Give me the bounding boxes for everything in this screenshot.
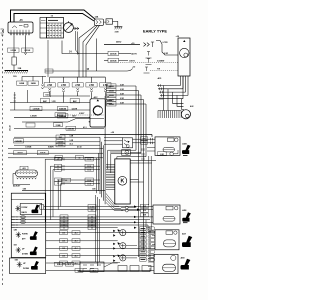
stub terminal [24, 53, 26, 55]
switch out label 2 [141, 141, 148, 145]
switch out wire 2 [133, 142, 156, 144]
lower mid row y141.8 [14, 141, 100, 143]
row label B4C y137.2 [56, 135, 65, 139]
ram3 label 2 [75, 156, 83, 160]
option row dotted [57, 114, 104, 116]
svg-text:41.3: 41.3 [70, 143, 73, 146]
svg-text:24SB: 24SB [31, 82, 37, 85]
sense wire 1 [120, 62, 178, 64]
row label [60, 254, 68, 258]
svg-text:A5B: A5B [182, 142, 187, 145]
wire 15 [45, 39, 97, 72]
row label [88, 205, 96, 209]
wire to inline fuse [13, 35, 15, 57]
svg-text:BACK: BACK [22, 211, 28, 214]
seat icon A59 [181, 259, 191, 270]
row bend aux [146, 220, 150, 227]
bottom connector boxes [80, 262, 104, 272]
row label [60, 231, 68, 235]
supply bus [50, 76, 106, 78]
connector arrow pair [74, 27, 79, 30]
connector A58 [153, 205, 180, 224]
bottom label 2 [66, 262, 74, 266]
wire fuse to ground [13, 65, 15, 70]
bus D to unit B [14, 116, 90, 118]
column arrows 1 [49, 88, 51, 92]
svg-text:1BSUB: 1BSUB [58, 145, 65, 147]
wire label 0.5SB [8, 48, 20, 52]
module bottom contacts [121, 206, 140, 212]
bus B to unit B [10, 102, 90, 104]
cluster 1 out wire [126, 232, 137, 234]
label right of module [158, 152, 167, 156]
stub into A57 y244.5 [152, 244, 155, 246]
relay unit A3C [89, 99, 106, 127]
row label [60, 246, 68, 250]
ram3 label 1 [55, 156, 63, 160]
svg-text:1417R: 1417R [131, 53, 137, 56]
wires to seat motor [164, 86, 185, 111]
svg-text:24SUB: 24SUB [68, 127, 75, 130]
svg-text:A32: A32 [190, 105, 193, 108]
trunk right of module [149, 156, 151, 230]
col5 tail [104, 93, 106, 99]
lower mid row y145.2 [14, 144, 100, 146]
svg-text:11: 11 [63, 228, 65, 230]
label 24SB a [17, 81, 28, 85]
svg-text:B4SUB: B4SUB [59, 108, 66, 111]
svg-text:B4C: B4C [43, 100, 48, 103]
row2 cont [119, 53, 132, 55]
svg-text:0.5SB/W: 0.5SB/W [157, 61, 164, 63]
unit1 sub box [20, 204, 42, 215]
staircase wire 2 [50, 166, 100, 219]
svg-text:FORW: FORW [22, 207, 28, 209]
left branch arrows [41, 85, 43, 90]
module feed row 1 [106, 85, 136, 87]
column drop 4 [91, 77, 93, 83]
stair extra label [62, 178, 71, 182]
staircase label 3 [85, 168, 94, 172]
staircase label 4 [85, 178, 94, 182]
switch out wire 1 [133, 138, 156, 140]
motor harness row 3 [159, 76, 186, 92]
bottom bus [78, 268, 150, 272]
row B to A58 [44, 209, 153, 211]
panel inner wire [11, 199, 44, 201]
left edge connector mark [1, 29, 4, 35]
switch unit 4 cross [17, 262, 22, 268]
staircase label a2 [55, 164, 62, 168]
label 24SB b [28, 81, 39, 85]
bus C label 1 [30, 106, 42, 110]
row label [88, 218, 96, 222]
label ladder right of clusters [140, 227, 155, 261]
terminal r4 [144, 67, 150, 73]
switch ticks 1 [150, 138, 152, 141]
staircase ticks 5 [62, 182, 64, 184]
staircase wire 4 [58, 180, 100, 210]
svg-text:24343: 24343 [109, 99, 114, 102]
ram2 label 1 [14, 151, 27, 155]
staircase ticks 4 [62, 179, 64, 181]
switch unit 3 cross [16, 247, 21, 253]
row label [72, 261, 80, 265]
svg-text:1.0S: 1.0S [90, 206, 93, 208]
staircase label a3 [55, 168, 62, 172]
svg-text:1.5R: 1.5R [52, 101, 57, 103]
bus C label 2 [57, 106, 68, 110]
staircase wire 3 [53, 170, 100, 217]
switch unit 2 cross [16, 232, 21, 238]
svg-text:24SU: 24SU [116, 41, 122, 44]
label 24SUB r3 [108, 58, 119, 62]
row label [72, 239, 80, 243]
row3 wire [104, 60, 108, 62]
stub into A59 y258.5 [148, 258, 154, 260]
small label box 24743 [26, 123, 35, 127]
svg-text:1.0S: 1.0S [62, 241, 65, 243]
branch wire e [77, 32, 79, 55]
svg-text:B/S: B/S [143, 142, 146, 144]
svg-text:41.3: 41.3 [83, 126, 87, 129]
corner wire 3 [117, 157, 146, 159]
note under A58 seat [183, 222, 188, 224]
svg-text:1.0S: 1.0S [62, 248, 65, 250]
feed label 3 [107, 93, 117, 97]
heater switch box [123, 138, 133, 148]
svg-text:03SLB: 03SLB [17, 153, 23, 155]
motor harness row 1 [157, 76, 181, 86]
column label 5 [100, 83, 111, 87]
row above module 2 [8, 152, 122, 153]
label A23 [20, 166, 28, 170]
staircase ticks 3 [62, 168, 64, 170]
row bend into A57 [148, 225, 155, 231]
svg-text:03SLB: 03SLB [40, 153, 46, 155]
label 24SUB mid2 [66, 126, 76, 130]
module right stubs [130, 179, 143, 182]
harness row 7 [46, 240, 118, 242]
corner wire 1 [108, 150, 136, 169]
control unit A5 box [8, 22, 33, 33]
panel oval contacts [21, 216, 26, 224]
micro switch S2 [122, 149, 131, 155]
unit A5 pins [10, 30, 30, 35]
harness border dashed [2, 30, 4, 285]
svg-text:2.5R: 2.5R [61, 85, 66, 87]
staircase label 5 [85, 182, 94, 186]
connector box [106, 19, 113, 24]
svg-text:1.0S: 1.0S [62, 256, 65, 258]
stub into A59 y262 [148, 261, 154, 263]
svg-text:2.5R: 2.5R [75, 85, 80, 87]
row label [88, 215, 96, 219]
row2 wire from fusebox [62, 41, 108, 54]
row above module 1 [8, 147, 103, 149]
col1 tail [49, 93, 51, 96]
svg-text:14A: 14A [95, 16, 99, 19]
feed wire 2 to splice [14, 14, 94, 23]
branch wire d [76, 31, 80, 54]
bus D label [57, 114, 68, 118]
svg-text:0.5R: 0.5R [164, 53, 169, 55]
svg-text:DOWN: DOWN [23, 268, 30, 270]
motor harness row 4 [160, 76, 188, 95]
svg-text:24SUB: 24SUB [110, 53, 117, 56]
row above module 3 [8, 157, 103, 159]
column drop 5 [104, 77, 106, 83]
row label B4SUB y141.8 [56, 140, 65, 144]
seat icon u3 [30, 247, 38, 256]
svg-text:11: 11 [57, 159, 59, 161]
trunk verticals lower [96, 195, 100, 266]
splice box 14A [95, 19, 104, 25]
staircase ticks 2 [62, 165, 64, 167]
contact circle right [170, 152, 174, 156]
seat motor cluster 2 [113, 242, 126, 250]
column drop 2 [63, 77, 65, 83]
drop x27 to bus B [27, 90, 29, 103]
svg-text:B/W: B/W [143, 215, 147, 217]
terminal r3 [146, 59, 152, 65]
switch ticks 2 [150, 142, 152, 145]
cluster 3 out wire [126, 257, 137, 259]
stub into A59 y266.5 [148, 266, 154, 268]
vertical from fusebox to bus [47, 40, 49, 77]
column arrows 4 [90, 88, 92, 92]
row ticks 3 [161, 91, 163, 94]
harness arrows [134, 216, 137, 229]
row label 1BSUB y145.2 [56, 143, 65, 147]
connector arrows r1 [144, 43, 150, 47]
col3 tail [77, 93, 79, 96]
column label 3 [72, 83, 83, 87]
hook wire to A5B [173, 150, 178, 154]
row label [60, 220, 68, 224]
vertical rail with marks [14, 92, 16, 110]
svg-text:K: K [121, 179, 125, 185]
bus 13B [22, 189, 105, 191]
svg-text:2.5R: 2.5R [47, 85, 52, 87]
fuse box grid [47, 18, 64, 39]
wire to ground 31M [113, 21, 118, 26]
solid arrows row A/B [134, 205, 140, 210]
harness row 1 [11, 216, 153, 218]
svg-text:24SB: 24SB [19, 82, 25, 85]
column arrows 2 [62, 88, 64, 92]
svg-text:11: 11 [57, 180, 59, 182]
svg-text:1.5SUB: 1.5SUB [32, 109, 40, 111]
harness row 9 [46, 255, 154, 257]
staircase label a5 [55, 182, 62, 186]
staircase wire 5 [61, 184, 100, 207]
seat icon A58 [182, 212, 191, 221]
branch wire b [83, 25, 98, 77]
svg-text:DOWN: DOWN [22, 254, 29, 256]
connector A59 [154, 254, 178, 273]
svg-text:2.5R: 2.5R [89, 85, 94, 87]
feed label 4 [107, 97, 117, 101]
svg-text:31SB: 31SB [55, 125, 61, 127]
module bottom fan [106, 194, 123, 211]
staircase label 1 [85, 157, 94, 161]
module out label 2 [141, 209, 149, 213]
heater connector A5B [155, 137, 180, 156]
svg-text:1417R: 1417R [72, 107, 78, 110]
col2 tail [63, 93, 65, 103]
staircase label a4 [55, 178, 62, 182]
ground 31M [114, 27, 122, 30]
lower mid row y137.2 [14, 136, 100, 138]
row label [88, 226, 96, 230]
wire into A5B row 3 [147, 147, 155, 149]
svg-text:11 03: 11 03 [87, 183, 91, 185]
row ticks 1 [159, 84, 161, 87]
motor harness row 2 [158, 76, 183, 89]
svg-text:31B: 31B [18, 68, 22, 70]
row3 cont [119, 60, 129, 62]
column drop 3 [77, 77, 79, 83]
label 34SUB mid [55, 113, 66, 117]
feed label 2 [107, 88, 117, 92]
A31 feed verticals [136, 86, 146, 257]
bus A to unit B [50, 95, 90, 97]
svg-text:24343: 24343 [109, 94, 114, 97]
svg-text:+30: +30 [132, 67, 135, 69]
row A to A58 [44, 206, 153, 208]
control module K [115, 159, 130, 204]
note under A5B seat [183, 155, 188, 157]
seat icon u1 [32, 205, 40, 214]
module out label 3 [141, 213, 149, 217]
bottom diag wire [104, 263, 120, 268]
unit1 cross [15, 206, 20, 212]
row label [88, 220, 96, 224]
harness row 6 [46, 232, 155, 234]
row ticks 4 [162, 94, 164, 97]
staircase wire 1 [45, 159, 100, 222]
bus C to unit B [10, 109, 90, 111]
svg-text:31M: 31M [115, 32, 119, 34]
S2 output wire [130, 151, 141, 153]
column label 1 [44, 83, 55, 87]
svg-text:03: 03 [91, 228, 93, 230]
fuse box left block [40, 18, 47, 39]
svg-text:EARLY TYPE: EARLY TYPE [143, 29, 167, 34]
seat icon A57 [182, 236, 192, 247]
strip ground wire [13, 174, 30, 185]
harness row 2 [11, 219, 150, 221]
seat icon u4 [31, 261, 39, 270]
svg-text:0.5SB: 0.5SB [10, 50, 16, 52]
seat icon A5B [182, 145, 191, 154]
wire 15 to connector [97, 69, 133, 72]
bus B label 2 [70, 99, 80, 103]
row label [72, 231, 80, 235]
ribbon cable [106, 165, 115, 190]
pump unit A31 [178, 38, 190, 76]
row label [72, 246, 80, 250]
svg-text:11 03: 11 03 [87, 169, 91, 171]
ground 31B [4, 71, 28, 74]
feed wire to pump unit [156, 41, 178, 56]
bottom small boxes [118, 266, 151, 272]
svg-text:34SUB: 34SUB [15, 140, 22, 143]
row ticks 2 [160, 88, 162, 91]
terminal r1 [151, 42, 154, 47]
column arrows 5 [104, 88, 106, 92]
svg-text:B4C: B4C [73, 100, 78, 103]
column label 2 [58, 83, 69, 87]
bus +30 [60, 135, 152, 137]
module feed row 2 [106, 90, 139, 92]
mid row 1 [22, 119, 104, 123]
row label [88, 208, 96, 212]
seat icon u2 [30, 231, 38, 240]
cluster 2 out wire [126, 245, 137, 247]
motor harness row 5 [159, 76, 184, 99]
svg-text:34SUB: 34SUB [57, 114, 64, 117]
module out label 1 [141, 204, 149, 208]
feed label 5 [107, 102, 117, 106]
staircase label 2 [85, 164, 94, 168]
module feed row 3 [106, 94, 141, 96]
svg-text:41 43: 41 43 [77, 146, 82, 149]
module feed row 5 [106, 103, 146, 105]
harness row 10 [46, 262, 118, 264]
svg-text:24343: 24343 [109, 85, 114, 88]
branch wire a [79, 25, 96, 77]
svg-text:A3C: A3C [94, 96, 99, 99]
row into heater switch 2 [104, 140, 123, 142]
note lines right of A3C [107, 101, 112, 104]
column label 4 [86, 83, 97, 87]
trunk bundle [100, 96, 105, 204]
stub into A57 y235.2 [152, 234, 155, 236]
seat motor cluster 1 [113, 229, 126, 237]
panel pin rows [11, 217, 17, 228]
seat switch panel [11, 193, 45, 257]
svg-text:16L43: 16L43 [9, 124, 12, 131]
harness row 11 [46, 270, 154, 272]
col4 tail [91, 93, 93, 99]
harness row 3 [11, 221, 153, 223]
svg-text:11SYS: 11SYS [129, 61, 136, 63]
label 31SB [54, 123, 63, 127]
switch output wire [73, 28, 79, 30]
label 34SUB left [14, 139, 24, 143]
column drop 1 [49, 77, 51, 83]
harness row 4 [11, 224, 148, 226]
terminal r2 [146, 52, 152, 59]
svg-text:11: 11 [57, 169, 59, 171]
terminal ticks right of switches [142, 148, 144, 160]
svg-text:24SUB: 24SUB [110, 60, 117, 63]
column arrows 3 [77, 88, 79, 92]
stub wire [25, 35, 27, 52]
ram2 label 2 [37, 151, 48, 155]
sense wire 2 [150, 70, 178, 72]
svg-text:ADJUST: ADJUST [13, 185, 21, 188]
wire into A5B row 4 [147, 150, 155, 152]
svg-text:SUB/R: SUB/R [48, 147, 54, 149]
row label [75, 269, 83, 273]
branch wire c [86, 25, 100, 77]
module right pins [130, 161, 156, 164]
mid row 2 [14, 128, 104, 130]
svg-text:24343: 24343 [109, 90, 114, 93]
